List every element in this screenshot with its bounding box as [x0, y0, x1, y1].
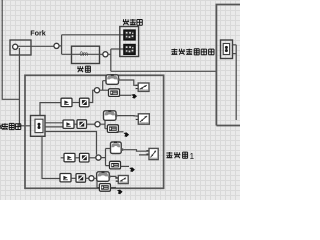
Fork box	[10, 40, 31, 55]
svg-text:Fork: Fork	[30, 28, 46, 37]
row2 wire B to circle	[87, 123, 95, 125]
row3 waveform graph icon	[146, 148, 158, 159]
terminal circle in Fork box	[13, 44, 18, 49]
row1 wire split to dome and fft	[100, 81, 109, 91]
fiber box 光纤	[72, 46, 100, 63]
row3 wire split	[101, 149, 111, 166]
row4 wire B to circle	[86, 177, 89, 179]
row4 waveform graph icon	[116, 176, 128, 184]
row4 wire A-B	[71, 177, 76, 179]
row4 wire fft to arrow	[110, 187, 116, 189]
row1 wire B to circle	[89, 90, 94, 102]
row1 wire dome to graph	[120, 80, 138, 85]
background grid	[0, 0, 240, 200]
mux box 复用器	[31, 116, 46, 137]
node circle after Fork	[54, 43, 59, 48]
wire split to spectrometer ch1 and fiber	[59, 35, 124, 55]
row3 generator icon (dangling stub)	[61, 157, 64, 159]
row1 junction circle	[94, 88, 99, 93]
row1 arrow	[131, 94, 137, 99]
row2 junction circle	[95, 122, 100, 127]
row3 junction circle	[96, 155, 101, 160]
row1 wire A-B	[72, 102, 80, 104]
label 波分解复用器	[171, 49, 177, 55]
demux terminal box	[221, 40, 233, 59]
svg-text:0m: 0m	[80, 52, 88, 58]
spectrometer terminal ch1	[124, 30, 135, 40]
row2 wire A-B	[74, 123, 77, 125]
row2 waveform graph icon	[136, 114, 150, 124]
row4 arrow	[117, 190, 123, 195]
row2 converter icon	[77, 120, 87, 129]
svg-text:1: 1	[190, 152, 195, 161]
row1 dome express VI	[106, 74, 120, 84]
wire Fork down-left feed	[2, 0, 30, 126]
row4 wire split	[94, 178, 99, 187]
row3 wire fft to arrow	[121, 165, 130, 167]
label (波)分复用器	[0, 123, 3, 129]
row3 wire A-B	[75, 157, 80, 159]
wire mux to row3 circle (long over-route)	[45, 132, 97, 155]
row3 wire B to circle	[89, 157, 96, 159]
row3 converter icon	[80, 153, 90, 162]
row4 generator icon	[60, 174, 71, 182]
row1 fft box	[109, 89, 120, 97]
wire mux bus to row4	[42, 136, 60, 178]
row4 converter icon	[76, 174, 86, 183]
row4 junction circle	[89, 176, 94, 181]
row2 wire split	[100, 120, 107, 128]
row4 fft box	[99, 184, 110, 192]
spectrometer terminal ch2	[124, 45, 135, 55]
receiver frame 接收端	[25, 75, 164, 188]
row1 generator icon	[61, 98, 72, 106]
wire split to spectrometer ch2 and demux	[108, 49, 216, 71]
node circle after fiber	[103, 52, 108, 57]
row4 dome express VI	[97, 171, 111, 181]
row3 dome express VI (tall)	[111, 141, 124, 153]
label 光纤	[77, 66, 83, 72]
row4 wire dome to graph	[111, 176, 119, 181]
wire mux to row1	[40, 103, 61, 116]
demux outer structure box (cut at right edge)	[216, 5, 240, 126]
row1 converter icon	[80, 98, 90, 107]
row1 wire fft to arrow	[120, 94, 131, 96]
row2 wire dome to graph	[117, 115, 135, 117]
wire fiber through box to node	[72, 53, 103, 55]
wire mux to row2 (double)	[45, 123, 63, 127]
row2 arrow	[124, 132, 130, 137]
label 接收端1	[166, 152, 172, 158]
row3 fft box	[110, 161, 121, 169]
spectrometer box	[120, 27, 139, 57]
label 0m in fiber box	[79, 51, 90, 57]
row1 waveform graph icon	[136, 83, 149, 91]
wire Fork output horizontal	[15, 45, 54, 47]
row2 fft box	[107, 125, 118, 133]
row2 wire fft to arrow	[117, 131, 124, 133]
label 光谱仪	[123, 19, 129, 25]
row2 generator icon	[63, 120, 74, 128]
row3 wire dome to graph	[123, 150, 149, 155]
row2 dome express VI	[104, 110, 118, 120]
row3 arrow	[129, 167, 135, 172]
wire demux stubs right	[233, 45, 237, 120]
